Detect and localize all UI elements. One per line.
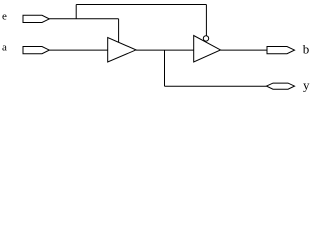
svg-text:y: y	[303, 78, 310, 93]
svg-text:e: e	[2, 11, 7, 23]
svg-text:a: a	[2, 42, 7, 54]
svg-text:b: b	[303, 42, 310, 57]
